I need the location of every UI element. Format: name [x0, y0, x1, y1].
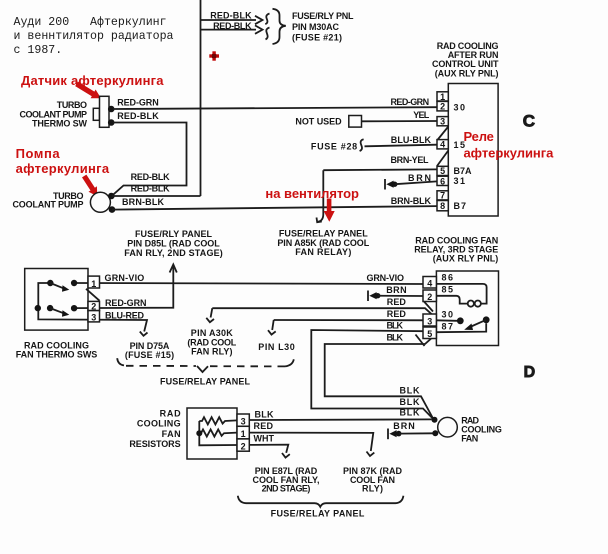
svg-text:Помпа: Помпа [16, 146, 61, 161]
wire RED-GRN (sws pin 2 up to panel D85L) [74, 265, 177, 309]
resistor R1 [199, 417, 237, 424]
fan motor M2 [438, 417, 458, 437]
svg-text:FAN RELAY): FAN RELAY) [295, 247, 351, 257]
brace to fuse panel M30AC [265, 9, 286, 44]
svg-text:FUSE/RELAY PANEL: FUSE/RELAY PANEL [279, 228, 368, 238]
ground G2 (relay pin 2 BRN) [368, 291, 380, 302]
dashed brace FUSE/RELAY PANEL [117, 358, 294, 372]
svg-text:3: 3 [241, 417, 246, 427]
svg-text:GRN-VIO: GRN-VIO [105, 273, 145, 283]
relay pin 5 [423, 327, 436, 339]
svg-text:RED: RED [387, 297, 407, 307]
svg-text:7: 7 [440, 191, 445, 201]
svg-text:FAN: FAN [461, 433, 478, 443]
svg-text:2ND STAGE): 2ND STAGE) [262, 483, 311, 493]
svg-text:RED-GRN: RED-GRN [117, 98, 159, 108]
ground G1 (BRN pin 6) [385, 179, 397, 190]
wire supply vertical (battery feed to pump) [200, 0, 202, 196]
svg-text:BRN-BLK: BRN-BLK [391, 196, 432, 206]
svg-text:3: 3 [427, 316, 432, 326]
svg-text:Реле: Реле [464, 129, 494, 144]
label RAD COOLING FAN RELAY 3RD STAGE [414, 236, 498, 264]
node: fan terminal bottom [432, 430, 438, 436]
wire BRN (ground to relay pin 2) [378, 285, 423, 296]
label FUSE/RLY PNL PIN M30AC (FUSE #21) [292, 11, 354, 42]
label PIN E87L (RAD COOL FAN RLY, 2ND STAGE) [253, 466, 320, 493]
wire BRN (ground to fan) [393, 421, 433, 434]
svg-text:BLK: BLK [400, 397, 421, 407]
svg-text:3: 3 [440, 117, 445, 127]
wire BLK 1 (relay pin 5 down-left to fan) [311, 320, 436, 418]
wire RED-GRN (switch to control unit pin 2) [113, 97, 437, 109]
svg-text:THERMO SW: THERMO SW [32, 119, 88, 129]
pin 3 [437, 117, 448, 127]
wire RED 1 (panel A30K to relay pin 3) [206, 297, 436, 322]
label NOT USED + terminal [295, 116, 361, 128]
node: resistor junction [196, 430, 202, 436]
svg-text:RED-BLK: RED-BLK [213, 21, 252, 31]
svg-text:RED-GRN: RED-GRN [391, 97, 430, 107]
svg-text:(AUX RLY PNL): (AUX RLY PNL) [433, 254, 499, 264]
switch SW2 [35, 305, 78, 317]
fuse F28 symbol [360, 139, 364, 151]
svg-text:(FUSE #21): (FUSE #21) [292, 33, 342, 43]
label TURBO COOLANT PUMP THERMO SW [20, 100, 88, 129]
svg-text:RESISTORS: RESISTORS [129, 439, 180, 449]
node: fan terminal top [432, 417, 438, 423]
svg-text:FAN THERMO SWS: FAN THERMO SWS [16, 350, 98, 360]
resistor common leg [199, 421, 237, 445]
wire RED 2 (panel L30 to relay pin 3) [268, 309, 436, 335]
svg-text:FAN RLY): FAN RLY) [191, 346, 232, 356]
label RAD COOLING FAN THERMO SWS [16, 340, 98, 359]
pin 6 [437, 176, 448, 186]
sws pin 1 [88, 276, 100, 289]
label RAD COOLING FAN [461, 415, 502, 443]
resistor pack box [187, 408, 237, 459]
svg-text:BRN-BLK: BRN-BLK [122, 197, 165, 207]
wire BLU-RED (sws pin 3 to panel D75A) [38, 283, 147, 336]
svg-text:BRN: BRN [386, 285, 406, 295]
svg-text:2: 2 [427, 292, 432, 302]
wire RED-BLK top 2 [201, 21, 263, 34]
svg-text:5: 5 [427, 329, 432, 339]
svg-text:YEL: YEL [413, 110, 430, 120]
svg-text:и веннтилятор радиатора: и веннтилятор радиатора [14, 30, 174, 43]
pin 7 [437, 191, 448, 201]
svg-text:Ауди 200 Афтеркулинг: Ауди 200 Афтеркулинг [14, 16, 167, 29]
ground G3 (fan BRN) [388, 429, 402, 440]
svg-text:8: 8 [440, 201, 445, 211]
resistor R2 [199, 429, 237, 436]
svg-text:GRN-VIO: GRN-VIO [367, 273, 405, 283]
pin 4 [437, 140, 448, 150]
svg-text:с 1987.: с 1987. [14, 44, 63, 57]
svg-text:1: 1 [91, 279, 96, 289]
sws pin 2 [88, 301, 100, 311]
slash omitted sws pins [86, 289, 100, 301]
wire WHT (resistor pin 2 to panel E87L) [249, 434, 289, 458]
wire BRN-BLK (pump to control unit pin 8) [112, 196, 437, 210]
svg-text:2: 2 [440, 102, 445, 112]
label RAD COOLING AFTER RUN CONTROL UNIT [432, 41, 499, 79]
pin 8 [437, 201, 448, 212]
label FUSE/RLY PANEL PIN D85L [124, 229, 223, 258]
svg-text:4: 4 [427, 278, 432, 288]
labels BLK at fan [400, 386, 421, 418]
pin 2 [437, 101, 448, 111]
pin 1 [437, 92, 448, 102]
label Реле афтеркулинга [464, 129, 555, 161]
label PIN D75A (FUSE #15) [125, 341, 174, 360]
wire BRN (ground to pin 6) [395, 173, 437, 184]
wire GRN-VIO (sws pin 1 to relay pin 4) [74, 273, 423, 284]
svg-text:PIN L30: PIN L30 [258, 342, 295, 352]
wire RED-BLK pump lower (to supply vertical) [112, 184, 201, 197]
svg-text:RED: RED [254, 421, 274, 431]
slash omitted pins a [437, 127, 448, 141]
relay pin 3 [423, 314, 436, 326]
svg-text:афтеркулинга: афтеркулинга [16, 161, 110, 176]
svg-text:BRN: BRN [393, 421, 415, 431]
svg-text:(FUSE #15): (FUSE #15) [125, 350, 174, 360]
wire RED-BLK top 1 [201, 10, 263, 24]
svg-text:1: 1 [241, 429, 246, 439]
svg-text:5: 5 [440, 166, 445, 176]
svg-text:Датчик афтеркулинга: Датчик афтеркулинга [21, 73, 164, 88]
label Помпа афтеркулинга [16, 146, 110, 176]
arrow to pump [82, 175, 97, 197]
node: pump terminal top [108, 193, 115, 200]
svg-text:6: 6 [440, 176, 445, 186]
svg-text:NOT USED: NOT USED [295, 116, 342, 126]
svg-text:COOLING: COOLING [137, 419, 181, 429]
svg-text:PIN M30AC: PIN M30AC [292, 22, 340, 32]
svg-text:WHT: WHT [254, 434, 275, 444]
svg-text:C: C [523, 111, 535, 130]
thermo switches box [25, 269, 88, 331]
svg-text:30: 30 [454, 102, 466, 112]
svg-text:RED-BLK: RED-BLK [210, 10, 252, 20]
svg-text:31: 31 [454, 176, 466, 186]
wire BRN-YEL (to pin 5) [323, 155, 437, 170]
node: switch pin bottom [108, 119, 115, 126]
svg-text:FUSE/RELAY PANEL: FUSE/RELAY PANEL [160, 377, 251, 387]
svg-text:2: 2 [241, 441, 246, 451]
resistor pin 1 [237, 426, 249, 439]
svg-text:RAD: RAD [160, 409, 182, 419]
label PIN A30K (RAD COOL FAN RLY) [187, 328, 236, 356]
svg-text:RED-GRN: RED-GRN [105, 298, 147, 308]
svg-text:RED-BLK: RED-BLK [131, 172, 171, 182]
wire BLK 2 (relay pin 5 down-left to fan inner) [325, 332, 437, 418]
plus symbol [209, 51, 219, 60]
svg-text:(AUX RLY PNL): (AUX RLY PNL) [435, 69, 499, 79]
svg-text:BLK: BLK [400, 386, 421, 396]
svg-text:FUSE #28: FUSE #28 [311, 142, 357, 152]
svg-text:BLK: BLK [255, 409, 275, 419]
arrowhead A85K [317, 218, 322, 223]
slash omitted pins b [437, 151, 448, 167]
red arrow to fan panel [324, 199, 335, 222]
svg-text:FUSE/RELAY PANEL: FUSE/RELAY PANEL [271, 509, 365, 519]
switch SW1 [47, 280, 77, 292]
svg-text:B7: B7 [454, 201, 467, 211]
svg-text:B7A: B7A [454, 166, 473, 176]
svg-text:FUSE/RLY PNL: FUSE/RLY PNL [292, 11, 354, 21]
sws pin 3 [88, 311, 100, 323]
svg-text:87: 87 [442, 322, 454, 332]
wire down to fan relay panel A85K [318, 170, 324, 222]
label FUSE/RELAY PANEL PIN A85K [277, 228, 369, 257]
label PIN 87K (RAD COOL FAN RLY) [343, 466, 403, 493]
relay K1 box [436, 271, 498, 346]
svg-text:BLK: BLK [387, 332, 404, 342]
label RAD COOLING FAN RESISTORS [129, 409, 181, 450]
svg-text:PIN A30K: PIN A30K [191, 328, 234, 338]
wire RED (resistor pin 1 to panel 87K) [249, 421, 374, 456]
pin 5 [437, 166, 448, 176]
wire YEL (not used terminal to pin 3) [362, 110, 438, 122]
thermo switch S1 body [93, 96, 109, 127]
svg-text:BRN: BRN [408, 173, 431, 183]
svg-text:RED-BLK: RED-BLK [131, 184, 171, 194]
svg-text:на вентилятор: на вентилятор [265, 186, 359, 201]
node: pump terminal bottom [109, 206, 116, 213]
svg-text:4: 4 [440, 140, 445, 150]
svg-text:BRN-YEL: BRN-YEL [391, 155, 430, 165]
wire RED-BLK (switch down to pump wire) [112, 111, 187, 196]
title text [14, 16, 174, 57]
svg-text:85: 85 [442, 285, 454, 295]
svg-text:RED-BLK: RED-BLK [117, 111, 159, 121]
svg-text:BLK: BLK [387, 320, 404, 330]
svg-text:BLK: BLK [400, 408, 421, 418]
svg-text:COOLANT PUMP: COOLANT PUMP [13, 200, 84, 210]
control unit U1 box [448, 84, 498, 217]
wire BLU-BLK (fuse to pin 4) [365, 135, 438, 147]
arrow to sensor [75, 82, 101, 99]
svg-text:RED: RED [387, 309, 407, 319]
relay coil internal [436, 284, 486, 307]
label TURBO COOLANT PUMP [13, 191, 84, 210]
svg-text:FAN: FAN [162, 429, 181, 439]
slash relay omitted pins b [416, 335, 425, 347]
svg-text:D: D [524, 364, 536, 381]
svg-text:86: 86 [442, 273, 454, 283]
svg-text:BLU-RED: BLU-RED [105, 310, 145, 320]
svg-text:афтеркулинга: афтеркулинга [464, 146, 555, 161]
svg-text:FAN RLY, 2ND STAGE): FAN RLY, 2ND STAGE) [124, 248, 223, 258]
svg-text:1: 1 [440, 92, 445, 102]
svg-text:RLY): RLY) [362, 483, 383, 493]
svg-text:BLU-BLK: BLU-BLK [391, 135, 432, 145]
resistor pin 2 [237, 439, 249, 452]
relay contact internal [436, 316, 489, 332]
relay pin 2 [423, 290, 436, 302]
underbrace FUSE/RELAY PANEL bottom [238, 496, 404, 507]
svg-text:30: 30 [442, 310, 454, 320]
slash relay omitted pins a [424, 302, 433, 312]
node: switch pin top [108, 106, 115, 113]
relay pin 4 [423, 277, 436, 289]
wire BLK (resistor pin 3 to fan) [249, 409, 431, 420]
resistor pin 3 [237, 414, 249, 427]
pump M1 [90, 192, 110, 212]
svg-text:3: 3 [91, 312, 96, 322]
